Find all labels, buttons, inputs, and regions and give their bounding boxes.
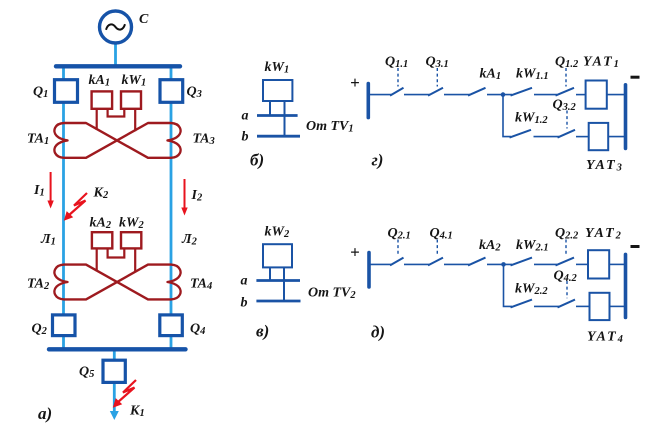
wire rail segment with junction	[487, 263, 512, 265]
breaker Q1	[33, 80, 78, 103]
svg-text:Q4: Q4	[190, 322, 205, 338]
wire YAT4 to negative bar	[610, 305, 625, 307]
breaker Q4	[160, 315, 206, 337]
wire kW1 right lead to TA circuit	[134, 109, 136, 131]
svg-text:YAT1: YAT1	[583, 55, 621, 71]
junction node	[501, 92, 506, 97]
svg-text:К1: К1	[129, 404, 145, 420]
wire rail segment	[576, 94, 586, 96]
svg-text:Q5: Q5	[79, 365, 94, 381]
wire kW2 right lead to TA circuit	[134, 248, 136, 272]
svg-text:Q1.1: Q1.1	[385, 55, 408, 71]
svg-text:b: b	[242, 130, 249, 145]
wire rail segment	[576, 136, 589, 138]
fault K1 lightning	[113, 380, 145, 419]
svg-text:kA2: kA2	[479, 238, 501, 254]
wattmeter relay kW1 voltage coil	[263, 60, 292, 101]
svg-text:Q1.2: Q1.2	[555, 55, 579, 71]
svg-text:I1: I1	[33, 183, 45, 199]
trip coil YAT3	[586, 123, 624, 174]
svg-text:К2: К2	[93, 186, 110, 202]
current arrow I2	[181, 179, 203, 216]
svg-text:kW1.2: kW1.2	[515, 111, 548, 127]
wire Q4 to lower busbar	[170, 335, 173, 350]
busbar top	[56, 64, 180, 68]
svg-text:б): б)	[250, 151, 264, 170]
wire YAT2 to negative bar	[609, 263, 624, 265]
trip coil YAT4	[587, 293, 625, 345]
wire kW1 lead to terminal a	[269, 101, 271, 116]
wire rail segment	[534, 94, 557, 96]
svg-text:От TV2: От TV2	[308, 286, 356, 302]
svg-text:а): а)	[38, 404, 52, 423]
junction node	[501, 262, 506, 267]
svg-text:kW2.2: kW2.2	[515, 282, 548, 298]
contact kW2.2	[511, 282, 549, 308]
label minus	[631, 76, 640, 79]
positive bus bar	[366, 84, 370, 118]
svg-text:д): д)	[371, 323, 385, 342]
wattmeter relay kW2 voltage coil	[263, 225, 292, 268]
wire feeder below Q5 with arrow	[110, 382, 119, 420]
wire line L2	[170, 101, 173, 316]
terminal line a (from TV1)	[257, 114, 298, 117]
svg-text:ТА3: ТА3	[193, 132, 215, 148]
generator C	[100, 11, 150, 43]
svg-text:YAT4: YAT4	[587, 330, 625, 346]
contact Q3.2	[553, 98, 577, 138]
svg-text:a: a	[241, 274, 248, 289]
svg-text:YAT2: YAT2	[585, 226, 623, 242]
svg-text:Q4.1: Q4.1	[430, 226, 453, 242]
terminal line b (from TV2)	[256, 300, 300, 303]
wire generator to busbar	[114, 42, 117, 66]
wire lower busbar to Q5	[113, 349, 116, 361]
terminal line a (from TV2)	[256, 279, 300, 282]
contact kW1.1	[511, 67, 549, 96]
wire kA2 left lead to TA circuit	[96, 248, 98, 271]
wire busbar to Q3	[170, 66, 173, 81]
svg-text:Л2: Л2	[181, 232, 198, 248]
contact Q1.2	[555, 55, 579, 96]
wire kW2 lead to terminal a	[269, 267, 271, 280]
svg-text:kA2: kA2	[90, 216, 112, 232]
svg-text:Q2.1: Q2.1	[388, 226, 411, 242]
wire rail segment	[576, 305, 591, 307]
wire kW2 lead to terminal b	[283, 267, 285, 301]
wire kW1 lead to terminal b	[284, 101, 286, 136]
wire rail segment	[444, 263, 470, 265]
svg-text:ТА2: ТА2	[27, 277, 50, 293]
current transformers TA1-TA3 crossed secondary loops	[54, 123, 180, 158]
svg-text:Q3: Q3	[187, 85, 202, 101]
contact kW2.1	[511, 238, 549, 265]
svg-text:Q2: Q2	[32, 322, 48, 338]
wire rail segment	[404, 263, 430, 265]
terminal line b (from TV1)	[257, 135, 300, 138]
trip coil YAT2	[585, 226, 623, 279]
wire rail segment	[534, 263, 557, 265]
wire rail segment	[404, 94, 430, 96]
branch wire from junction	[503, 95, 511, 137]
svg-text:kW2.1: kW2.1	[516, 238, 549, 254]
svg-text:a: a	[242, 109, 249, 124]
svg-text:kW2: kW2	[119, 216, 144, 232]
negative bus bar	[624, 85, 628, 149]
wire rail segment	[534, 136, 560, 138]
busbar bottom	[49, 347, 186, 351]
contact Q3.1	[426, 55, 449, 96]
relay kA1	[89, 73, 113, 109]
trip coil YAT1	[583, 55, 621, 109]
wire kA1-kW1 series bridge	[108, 109, 125, 117]
contact Q4.2	[554, 269, 578, 308]
svg-text:От TV1: От TV1	[306, 119, 354, 135]
svg-text:ТА1: ТА1	[27, 132, 49, 148]
svg-text:Q3.2: Q3.2	[553, 98, 577, 114]
wire rail segment	[576, 263, 588, 265]
wire line L1	[62, 101, 65, 316]
wire rail segment with junction	[487, 94, 512, 96]
svg-text:I2: I2	[191, 188, 203, 204]
svg-text:kW1: kW1	[122, 73, 147, 89]
wire rail segment	[368, 94, 392, 96]
wire YAT3 to negative bar	[608, 136, 624, 138]
wire rail segment	[534, 305, 559, 307]
breaker Q2	[32, 315, 76, 337]
svg-text:kW1.1: kW1.1	[516, 67, 549, 83]
relay kW1	[121, 73, 146, 109]
svg-text:kA1: kA1	[480, 67, 502, 83]
svg-text:Q2.2: Q2.2	[555, 226, 579, 242]
breaker Q5	[79, 360, 125, 382]
contact kA1	[468, 67, 501, 96]
wire kA1 left lead to TA circuit	[96, 109, 98, 130]
current arrow I1	[33, 172, 54, 209]
contact Q2.2	[555, 226, 579, 265]
wire YAT1 to negative bar	[607, 94, 625, 96]
svg-text:Q3.1: Q3.1	[426, 55, 449, 71]
contact Q4.1	[428, 226, 453, 265]
svg-text:kA1: kA1	[89, 73, 111, 89]
contact kW1.2	[510, 111, 549, 138]
contact Q1.1	[385, 55, 408, 96]
fault K2 lightning	[64, 186, 109, 221]
breaker Q3	[160, 80, 202, 103]
svg-text:+: +	[350, 73, 360, 92]
label minus	[631, 245, 640, 248]
svg-text:Л1: Л1	[40, 232, 56, 248]
wire Q2 to lower busbar	[62, 335, 65, 350]
wire kA2-kW2 series bridge	[108, 248, 125, 257]
positive bus bar	[367, 253, 371, 288]
contact Q2.1	[388, 226, 411, 265]
svg-text:г): г)	[372, 151, 384, 170]
current transformers TA2-TA4 crossed secondary loops	[54, 265, 180, 300]
svg-text:Q1: Q1	[33, 85, 48, 101]
contact kA2	[468, 238, 501, 265]
relay kA2	[90, 216, 113, 249]
svg-text:kW2: kW2	[265, 225, 290, 241]
wire busbar to Q1	[62, 66, 65, 81]
svg-text:С: С	[139, 12, 149, 27]
svg-text:в): в)	[256, 322, 269, 341]
svg-text:kW1: kW1	[265, 60, 290, 76]
relay kW2	[119, 216, 144, 249]
wire rail segment	[444, 94, 470, 96]
svg-text:ТА4: ТА4	[190, 277, 212, 293]
branch wire from junction	[504, 264, 513, 306]
svg-text:Q4.2: Q4.2	[554, 269, 578, 285]
svg-text:YAT3: YAT3	[586, 158, 624, 174]
wire rail segment	[369, 263, 392, 265]
svg-text:+: +	[350, 243, 360, 262]
negative bus bar	[624, 254, 628, 317]
svg-text:b: b	[241, 296, 248, 311]
